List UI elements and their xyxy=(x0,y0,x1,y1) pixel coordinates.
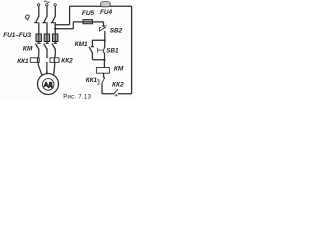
wire tap lower to FU5 xyxy=(55,22,102,29)
contactor KM main contact 2 xyxy=(44,44,47,49)
svg-text:SB1: SB1 xyxy=(106,48,119,55)
wire bottom rail xyxy=(118,7,131,94)
node dot1 xyxy=(104,39,106,41)
wire L2 lower xyxy=(46,49,48,58)
wire to coil xyxy=(103,60,105,68)
motor AD outer circle xyxy=(38,74,59,95)
motor AD inner circle xyxy=(42,79,54,91)
thermal contact KK1 xyxy=(102,77,105,83)
contactor KM main contact 1 xyxy=(36,44,39,49)
svg-text:АД: АД xyxy=(44,82,52,88)
terminal L2 xyxy=(46,4,48,6)
wire L3 lower xyxy=(54,49,57,58)
svg-text:Q: Q xyxy=(25,14,30,21)
wire L1 below fuse xyxy=(38,42,40,44)
wire KM1 branch bottom xyxy=(92,53,104,60)
fuse FU1 xyxy=(36,34,41,42)
switch Q pole 3 xyxy=(51,16,55,23)
wire L3 below fuse xyxy=(54,42,56,44)
switch Q pole 2 xyxy=(43,16,47,23)
svg-text:КК1: КК1 xyxy=(86,77,98,84)
wire L1 top stub xyxy=(38,6,40,16)
wire tap upper to control rail xyxy=(55,7,69,25)
thermal contact KK2 xyxy=(114,90,118,94)
wire below coil xyxy=(103,73,105,77)
svg-text:Рис. 7.13: Рис. 7.13 xyxy=(63,94,91,100)
wire L3 mid xyxy=(54,23,56,34)
terminal L3 xyxy=(54,4,56,6)
svg-text:КМ: КМ xyxy=(114,65,124,72)
wire FU5 corner down to SB2 xyxy=(102,22,105,26)
wire L1 mid xyxy=(38,23,40,34)
svg-text:КМ1: КМ1 xyxy=(75,41,88,48)
wire below SB2 xyxy=(104,31,106,40)
svg-text:FU4: FU4 xyxy=(100,9,113,16)
svg-text:КК1: КК1 xyxy=(17,58,29,65)
wire motor lead 2 xyxy=(46,62,48,73)
tilde AC symbol xyxy=(44,1,49,3)
contactor KM main contact 3 xyxy=(52,44,55,49)
wire top rail xyxy=(70,5,132,8)
node dot2 xyxy=(103,59,105,61)
wire KM1 branch top xyxy=(92,40,104,46)
coil KM xyxy=(96,68,109,74)
wire L3 top stub xyxy=(54,6,56,16)
fuse FU2 xyxy=(44,34,49,42)
fuse FU3 xyxy=(53,34,58,42)
wire L1 lower xyxy=(37,49,40,58)
node tap upper xyxy=(54,24,56,26)
thermal heater KK2 box xyxy=(50,58,59,63)
push-button SB1 (start, NO) xyxy=(104,40,106,47)
svg-text:SB2: SB2 xyxy=(110,28,123,35)
wire below KK1 xyxy=(102,84,114,94)
terminal L1 xyxy=(37,4,39,6)
svg-text:КК2: КК2 xyxy=(112,81,124,88)
wire L2 mid xyxy=(46,23,48,34)
svg-text:КК2: КК2 xyxy=(61,58,73,65)
arrow on motor lead 2 xyxy=(46,72,48,75)
svg-text:FU5: FU5 xyxy=(82,10,95,17)
thermal heater KK1 box xyxy=(30,58,39,63)
fuse FU5 xyxy=(83,20,93,24)
svg-text:КМ: КМ xyxy=(23,46,33,53)
fuse FU4 capsule xyxy=(101,2,111,7)
node tap lower xyxy=(54,28,57,31)
wire L2 below fuse xyxy=(46,42,48,44)
wire motor lead 1 xyxy=(38,62,42,75)
push-button SB2 (stop, NC) xyxy=(102,26,107,28)
switch Q pole 1 xyxy=(35,16,39,23)
wire motor lead 3 xyxy=(54,62,55,75)
contact KM1 (aux, NO) xyxy=(89,47,93,53)
svg-text:FU1–FU3: FU1–FU3 xyxy=(3,32,31,39)
wire L2 top stub xyxy=(46,6,48,16)
